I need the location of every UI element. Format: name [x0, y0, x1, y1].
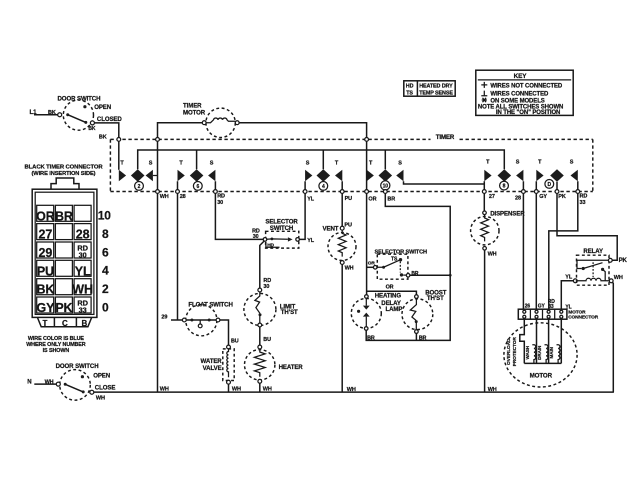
- svg-text:S: S: [210, 161, 214, 167]
- svg-text:OVERLOAD: OVERLOAD: [506, 338, 512, 365]
- svg-text:T: T: [43, 319, 48, 328]
- svg-text:8: 8: [503, 184, 506, 190]
- svg-text:OPEN: OPEN: [93, 373, 110, 380]
- svg-text:29: 29: [39, 246, 53, 260]
- svg-text:30: 30: [253, 234, 259, 240]
- svg-text:PU: PU: [37, 264, 54, 278]
- svg-text:LAMP: LAMP: [386, 306, 403, 313]
- svg-text:10: 10: [98, 209, 112, 223]
- svg-text:IS SHOWN: IS SHOWN: [43, 348, 70, 354]
- svg-text:MOTOR: MOTOR: [530, 372, 553, 379]
- svg-text:PROTECTOR: PROTECTOR: [512, 337, 518, 367]
- svg-text:WH: WH: [263, 387, 272, 393]
- svg-text:WH: WH: [160, 194, 169, 200]
- svg-text:10: 10: [383, 184, 389, 190]
- svg-text:BLACK TIMER CONNECTOR: BLACK TIMER CONNECTOR: [25, 164, 104, 170]
- svg-text:0: 0: [102, 300, 109, 314]
- svg-text:WH: WH: [347, 387, 356, 393]
- svg-text:TH'ST: TH'ST: [427, 295, 444, 302]
- svg-text:33: 33: [79, 305, 87, 314]
- svg-text:28: 28: [76, 228, 90, 242]
- svg-text:RELAY: RELAY: [583, 248, 603, 255]
- svg-text:33: 33: [580, 200, 586, 206]
- svg-text:BR: BR: [411, 271, 419, 277]
- svg-text:28: 28: [515, 196, 521, 202]
- svg-text:WH: WH: [232, 387, 241, 393]
- svg-text:30: 30: [263, 284, 269, 290]
- svg-text:GY: GY: [36, 301, 55, 315]
- svg-text:HD: HD: [406, 84, 414, 90]
- svg-text:27: 27: [39, 228, 53, 242]
- svg-text:YL: YL: [307, 196, 315, 202]
- svg-text:30: 30: [79, 250, 87, 259]
- svg-text:C: C: [62, 319, 68, 328]
- svg-text:GY: GY: [538, 304, 546, 310]
- svg-text:BK: BK: [88, 126, 96, 132]
- svg-text:YL: YL: [75, 264, 91, 278]
- svg-text:KEY: KEY: [514, 73, 528, 80]
- svg-text:27: 27: [489, 194, 495, 200]
- svg-text:4: 4: [102, 264, 109, 278]
- svg-text:TS: TS: [391, 256, 398, 262]
- svg-text:MAIN: MAIN: [549, 346, 554, 358]
- svg-text:S: S: [570, 160, 574, 166]
- svg-text:YL: YL: [565, 304, 571, 310]
- svg-text:WH: WH: [488, 252, 497, 258]
- svg-text:WIRES CONNECTED: WIRES CONNECTED: [490, 92, 549, 98]
- svg-text:4: 4: [322, 184, 325, 190]
- svg-text:PU: PU: [344, 223, 352, 229]
- svg-text:S: S: [149, 161, 153, 167]
- svg-text:WH: WH: [488, 387, 497, 393]
- svg-text:BK: BK: [99, 134, 107, 140]
- svg-text:30: 30: [217, 200, 223, 206]
- svg-text:WIRES NOT CONNECTED: WIRES NOT CONNECTED: [490, 83, 563, 89]
- svg-text:BR: BR: [387, 196, 395, 202]
- svg-text:DOOR SWITCH: DOOR SWITCH: [58, 96, 101, 103]
- svg-text:WH: WH: [160, 386, 169, 392]
- svg-text:OR: OR: [368, 197, 376, 203]
- svg-text:WH: WH: [345, 265, 354, 271]
- svg-text:VALVE: VALVE: [203, 365, 222, 372]
- svg-text:S: S: [516, 160, 520, 166]
- svg-text:WASH: WASH: [525, 345, 530, 359]
- svg-text:PK: PK: [619, 257, 628, 264]
- svg-text:HEATING: HEATING: [375, 293, 402, 300]
- svg-text:OR: OR: [386, 284, 394, 290]
- svg-text:26: 26: [525, 304, 531, 310]
- svg-text:28: 28: [180, 194, 186, 200]
- svg-text:N: N: [27, 379, 31, 386]
- svg-text:29: 29: [161, 314, 167, 320]
- svg-text:OPEN: OPEN: [94, 104, 111, 111]
- svg-text:HEATER: HEATER: [279, 364, 304, 371]
- svg-text:6: 6: [196, 184, 199, 190]
- svg-text:CONNECTOR: CONNECTOR: [568, 315, 599, 321]
- svg-text:IN THE "ON" POSITION: IN THE "ON" POSITION: [496, 110, 560, 116]
- svg-text:BU: BU: [231, 338, 239, 344]
- svg-text:33: 33: [548, 304, 554, 310]
- svg-text:WH: WH: [72, 283, 93, 297]
- svg-text:OR: OR: [368, 260, 376, 266]
- svg-text:8: 8: [102, 227, 109, 241]
- svg-text:B: B: [82, 319, 88, 328]
- svg-text:6: 6: [102, 245, 109, 259]
- svg-text:BR: BR: [367, 336, 375, 342]
- svg-text:S: S: [398, 161, 402, 167]
- svg-text:(WIRE INSERTION SIDE): (WIRE INSERTION SIDE): [32, 171, 96, 177]
- svg-text:HD: HD: [267, 243, 274, 249]
- svg-text:VENT: VENT: [323, 226, 339, 233]
- svg-text:YL: YL: [565, 275, 573, 281]
- svg-text:WH: WH: [96, 396, 105, 402]
- svg-text:OR: OR: [36, 209, 55, 223]
- svg-text:TEMP SENSE: TEMP SENSE: [419, 90, 453, 96]
- svg-text:CLOSED: CLOSED: [97, 116, 122, 123]
- svg-text:BU: BU: [263, 337, 271, 343]
- svg-text:DOOR SWITCH: DOOR SWITCH: [56, 363, 99, 370]
- svg-text:FLOAT SWITCH: FLOAT SWITCH: [188, 302, 232, 309]
- svg-text:GY: GY: [539, 194, 547, 200]
- svg-text:BR: BR: [55, 209, 73, 223]
- svg-text:2: 2: [138, 184, 141, 190]
- svg-text:CLOSE: CLOSE: [95, 384, 116, 391]
- svg-text:D: D: [548, 182, 552, 188]
- svg-text:WATER: WATER: [201, 358, 223, 365]
- svg-text:PK: PK: [55, 301, 72, 315]
- svg-text:PU: PU: [345, 196, 353, 202]
- svg-text:DRAIN: DRAIN: [537, 345, 542, 360]
- svg-text:BK: BK: [36, 283, 54, 297]
- svg-text:HEATED DRY: HEATED DRY: [419, 84, 453, 90]
- svg-text:RD: RD: [263, 278, 271, 284]
- svg-text:WH: WH: [614, 275, 623, 281]
- svg-text:RD: RD: [217, 194, 225, 200]
- svg-text:DISPENSER: DISPENSER: [490, 210, 525, 217]
- svg-text:TS: TS: [406, 90, 413, 96]
- svg-text:TIMER: TIMER: [436, 134, 455, 141]
- svg-text:MOTOR: MOTOR: [183, 109, 206, 116]
- svg-text:S: S: [306, 161, 310, 167]
- svg-text:RD: RD: [580, 194, 588, 200]
- svg-text:YL: YL: [307, 238, 315, 244]
- svg-text:TH'ST: TH'ST: [281, 309, 298, 316]
- svg-text:BR: BR: [419, 336, 427, 342]
- svg-text:PK: PK: [558, 194, 566, 200]
- svg-text:2: 2: [102, 282, 109, 296]
